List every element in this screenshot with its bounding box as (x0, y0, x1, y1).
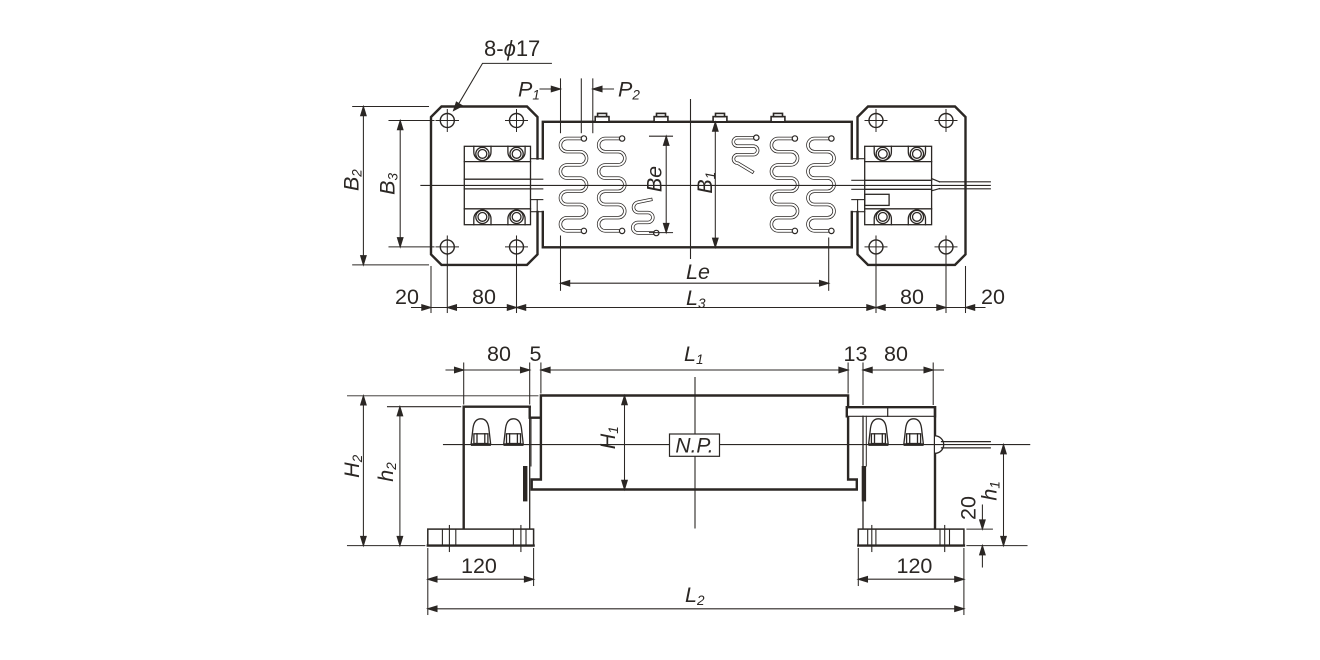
right foot column (934, 407, 936, 529)
right mounting plate (plan) (858, 107, 966, 265)
left foot column (464, 407, 530, 529)
20 extension line (flange top) (967, 528, 993, 530)
right plate mounting holes (869, 114, 953, 254)
svg-text:h2: h2 (374, 462, 399, 482)
svg-text:13: 13 (844, 342, 868, 366)
gap white-out right junction (849, 160, 860, 211)
120 left extension lines (427, 549, 429, 615)
120 right extension lines (857, 549, 859, 586)
P2 dimension arrow (594, 88, 613, 90)
H2 dimension line (362, 397, 364, 545)
body left edge thin segment (540, 418, 542, 480)
resistor element E4 (short, top) (733, 135, 759, 172)
resistor element E3 (short, bottom) (633, 200, 659, 236)
right flange slot lines (868, 526, 950, 552)
vertical centerline (elevation) (694, 378, 696, 529)
right junction bridge lines (852, 159, 865, 212)
gap white-out left junction (535, 160, 546, 211)
left terminal bushing 1 (471, 419, 491, 446)
svg-text:20: 20 (981, 285, 1005, 309)
h1 dimension line (1003, 446, 1005, 545)
L2 dimension line (429, 608, 963, 610)
left junction bridge lines (531, 159, 543, 212)
120 right dimension line (859, 578, 963, 580)
right foot cap strip (847, 407, 935, 416)
svg-text:B3: B3 (376, 172, 401, 194)
resistor element E6 (808, 136, 834, 234)
right foot gap line (865, 416, 867, 466)
svg-text:L1: L1 (684, 342, 703, 367)
svg-text:80: 80 (900, 285, 924, 309)
resistor element E1 (560, 136, 586, 234)
Le dimension line (562, 282, 828, 284)
svg-text:H2: H2 (340, 454, 365, 478)
L3 chain extension lines (430, 267, 432, 313)
H2 extension lines (348, 395, 539, 397)
wire boss on right foot (935, 436, 944, 453)
h2 extension line (388, 406, 461, 408)
left base flange (428, 529, 534, 545)
svg-text:5: 5 (530, 342, 542, 366)
resistor element E5 (771, 136, 797, 234)
svg-text:Le: Le (686, 260, 710, 284)
svg-text:L3: L3 (686, 286, 706, 311)
N.P. box (670, 434, 720, 456)
Be extension lines (650, 135, 673, 137)
20 dimension arrows (981, 505, 983, 528)
left terminal block (464, 146, 530, 224)
chain dimension line 20-80-L3-80-20 (412, 307, 986, 309)
right bracket bar (dark) (862, 466, 866, 501)
svg-text:80: 80 (472, 285, 496, 309)
svg-text:P1: P1 (518, 78, 540, 103)
B2 extension lines (353, 106, 429, 108)
right terminal bushing 2 (904, 419, 924, 446)
svg-text:8-ϕ17: 8-ϕ17 (484, 36, 540, 61)
H1 dimension line (624, 397, 626, 489)
B2 dimension line (362, 108, 364, 264)
svg-text:20: 20 (395, 285, 419, 309)
bottom hole extension lines (446, 236, 448, 255)
svg-text:N.P.: N.P. (675, 435, 713, 458)
B3 extension lines (389, 120, 434, 122)
h2 dimension line (399, 408, 401, 545)
horizontal centerline (elevation) (444, 444, 1030, 446)
right terminal block (865, 146, 932, 224)
h1 extension line bottom (967, 545, 1027, 547)
svg-text:P2: P2 (618, 78, 640, 103)
horizontal centerline (plan view) (421, 184, 990, 186)
chain dimension line 80-5-L1-13-80 (446, 369, 463, 371)
svg-text:80: 80 (884, 342, 908, 366)
lead wires (plan) (940, 182, 991, 189)
P1 dimension arrow (540, 88, 559, 90)
top chain extension lines (463, 363, 465, 404)
resistor element E2 (599, 136, 625, 234)
svg-text:Be: Be (643, 166, 667, 192)
left bracket bar (dark) (523, 466, 527, 501)
hole crosshairs (436, 110, 957, 247)
svg-text:120: 120 (897, 554, 933, 578)
resistor body (plan) (543, 122, 852, 248)
Be dimension line (665, 137, 667, 231)
lead-wire taper (plan) (932, 179, 940, 191)
Le extension lines (560, 236, 562, 290)
vertical centerline (plan view) (690, 100, 692, 259)
left plate mounting holes (440, 114, 523, 254)
left block bolts (476, 147, 523, 223)
P1 P2 extension ticks (560, 79, 562, 133)
svg-text:80: 80 (487, 342, 511, 366)
callout 8-phi17 leader (457, 63, 552, 107)
120 left dimension line (429, 578, 533, 580)
right terminal bushing 1 (868, 419, 888, 446)
svg-text:h1: h1 (978, 481, 1003, 500)
svg-text:L2: L2 (685, 583, 705, 608)
right base flange (858, 529, 964, 545)
right block bolts (876, 147, 923, 223)
svg-text:B2: B2 (339, 169, 364, 191)
lead wires (elevation) (942, 442, 991, 448)
left foot gap line (530, 418, 532, 466)
terminal bumps on body top (595, 113, 785, 121)
resistor body (elevation) (530, 396, 857, 490)
B1 dimension line (714, 123, 716, 246)
B3 dimension line (399, 122, 401, 246)
left terminal bushing 2 (504, 419, 524, 446)
left mounting plate (plan) (431, 107, 538, 265)
svg-text:120: 120 (461, 554, 497, 578)
left flange slot lines (442, 526, 526, 552)
